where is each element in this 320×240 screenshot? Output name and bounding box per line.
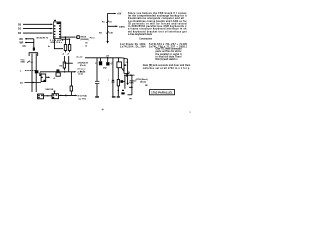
svg-text:RD: RD <box>20 39 24 41</box>
svg-text:-5v +5v: -5v +5v <box>76 57 83 59</box>
resistor R5 diagonal <box>27 61 30 63</box>
svg-text:Oem [B] and seconds and hour a: Oem [B] and seconds and hour and Oem <box>143 65 191 67</box>
junction dot <box>107 57 109 59</box>
wire DATA tap <box>108 25 118 27</box>
wire drop far right <box>131 75 133 95</box>
diode CR1 <box>75 36 77 38</box>
wire staple top <box>29 53 38 56</box>
svg-text:(to TTY): (to TTY) <box>79 97 87 100</box>
wire U2 out <box>46 76 48 78</box>
svg-text:a true keyboard deck: a true keyboard deck <box>128 33 153 36</box>
wire output stub right <box>127 59 129 84</box>
resistor R6 <box>60 56 73 72</box>
resistor R3 <box>68 39 70 52</box>
tick on wire <box>64 70 66 72</box>
wire drop CR2 collector <box>112 58 114 97</box>
wire U1 output right <box>61 36 76 38</box>
svg-text:+5V: +5V <box>117 13 122 16</box>
wire dash bottom right <box>128 94 132 96</box>
wire drop C2 <box>96 58 98 81</box>
svg-text:C8: C8 <box>85 43 87 45</box>
svg-text:parts on Pins for all for: parts on Pins for all for <box>156 50 182 53</box>
wire drop right <box>123 58 125 74</box>
ground arrow <box>106 41 108 44</box>
note paragraph 2 <box>156 48 183 61</box>
caption box 1702 PARALLEL <box>150 90 175 95</box>
wire junction right <box>124 73 132 77</box>
wire U1 row2 right <box>61 38 70 40</box>
svg-text:AC: AC <box>20 82 24 85</box>
wire D2 <box>23 32 53 34</box>
svg-text:the parallel or serial it: the parallel or serial it <box>156 53 182 56</box>
wire U-loop under U1 <box>54 39 63 49</box>
svg-text:10K: 10K <box>109 33 113 35</box>
capacitor C3 <box>35 70 39 73</box>
svg-text:WR: WR <box>20 43 24 45</box>
wire L input <box>25 70 36 72</box>
capacitor C1 <box>33 48 35 51</box>
svg-text:(Ph.A): (Ph.A) <box>80 64 86 67</box>
svg-text:z: z <box>108 80 109 82</box>
junction dot <box>33 82 34 83</box>
wire step bottom left <box>40 71 75 73</box>
svg-text:switches set at all 1702 to x: switches set at all 1702 to x 1 for p <box>143 67 190 70</box>
capacitor C4 <box>39 74 41 76</box>
op-amp U2 <box>41 74 46 82</box>
wire rail B <box>35 54 37 93</box>
svg-text:x2: x2 <box>85 46 87 48</box>
ground bar 1 <box>95 96 99 97</box>
resistor R1 <box>102 20 112 26</box>
svg-text:M1 M2 R5 T0: M1 M2 R5 T0 <box>37 38 48 40</box>
wire D1 <box>23 28 53 30</box>
svg-text:DATA: DATA <box>119 25 125 28</box>
parts table <box>120 43 188 49</box>
svg-text:(2N2222): (2N2222) <box>81 39 90 41</box>
resistor R4 <box>99 26 114 41</box>
arrow to pin2 <box>74 71 76 73</box>
svg-text:GND CLK x: GND CLK x <box>50 42 63 44</box>
svg-text:Dim (A) and switch x: Dim (A) and switch x <box>156 58 179 61</box>
svg-text:-4-: -4- <box>101 109 104 112</box>
op IC U1 <box>54 22 61 39</box>
wire WR <box>25 42 34 44</box>
wire arrow right small <box>129 86 132 88</box>
svg-text:Construction: Construction <box>139 38 152 41</box>
resistor R2 <box>64 37 66 52</box>
note paragraph 3 <box>143 65 191 70</box>
capacitor C2 <box>95 81 99 96</box>
IC U3 <box>56 73 60 76</box>
svg-text:1x74LS04, DL,2N4: 1x74LS04, DL,2N4 <box>120 46 146 49</box>
wire U5 top stub <box>54 91 56 94</box>
svg-text:1702 PARALLEL: 1702 PARALLEL <box>151 92 173 95</box>
wire vertical bus left <box>33 39 35 51</box>
svg-text:N OUT (8): N OUT (8) <box>78 96 88 98</box>
svg-text:Give TTL level connected: Give TTL level connected <box>156 48 183 51</box>
resistor R7 <box>70 72 73 96</box>
wire rail A <box>31 54 33 93</box>
annotation labels mid <box>76 57 88 73</box>
wire AC input <box>24 82 41 84</box>
svg-text:(Stub): (Stub) <box>140 81 146 84</box>
ground bar 3 <box>117 96 120 97</box>
wire +5V rail <box>85 58 128 59</box>
wire serial out <box>59 94 76 96</box>
junction dot serial <box>60 95 61 96</box>
wire RD <box>25 38 34 40</box>
IC U5 <box>52 94 59 99</box>
U1 top mark <box>54 20 56 21</box>
resistor R8 <box>117 80 125 97</box>
diode CR2 <box>108 80 115 83</box>
note paragraph 1 <box>128 12 187 36</box>
arrow down <box>126 83 128 85</box>
transistor Q1 <box>99 58 114 70</box>
svg-text:7400 NE: 7400 NE <box>45 88 54 91</box>
junction dot <box>65 36 66 37</box>
junction dot <box>69 39 70 40</box>
wire D0 <box>23 23 53 25</box>
IC U4 <box>38 94 44 99</box>
transistor Q2 <box>117 58 124 80</box>
svg-text:4 PIN (Back): 4 PIN (Back) <box>136 78 148 81</box>
svg-text:to final full data Then!: to final full data Then! <box>156 55 182 58</box>
speck bottom right <box>190 111 191 114</box>
svg-text:CS: CS <box>23 46 27 48</box>
transistor Q3 <box>120 75 125 89</box>
wire U4 to U5 <box>44 95 53 97</box>
svg-text:GND: GND <box>21 62 26 64</box>
svg-text:(to 2): (to 2) <box>78 73 83 76</box>
wire +5V feed top right <box>108 14 116 21</box>
capacitor C5 <box>56 69 59 72</box>
ground bar 2 <box>112 96 116 97</box>
